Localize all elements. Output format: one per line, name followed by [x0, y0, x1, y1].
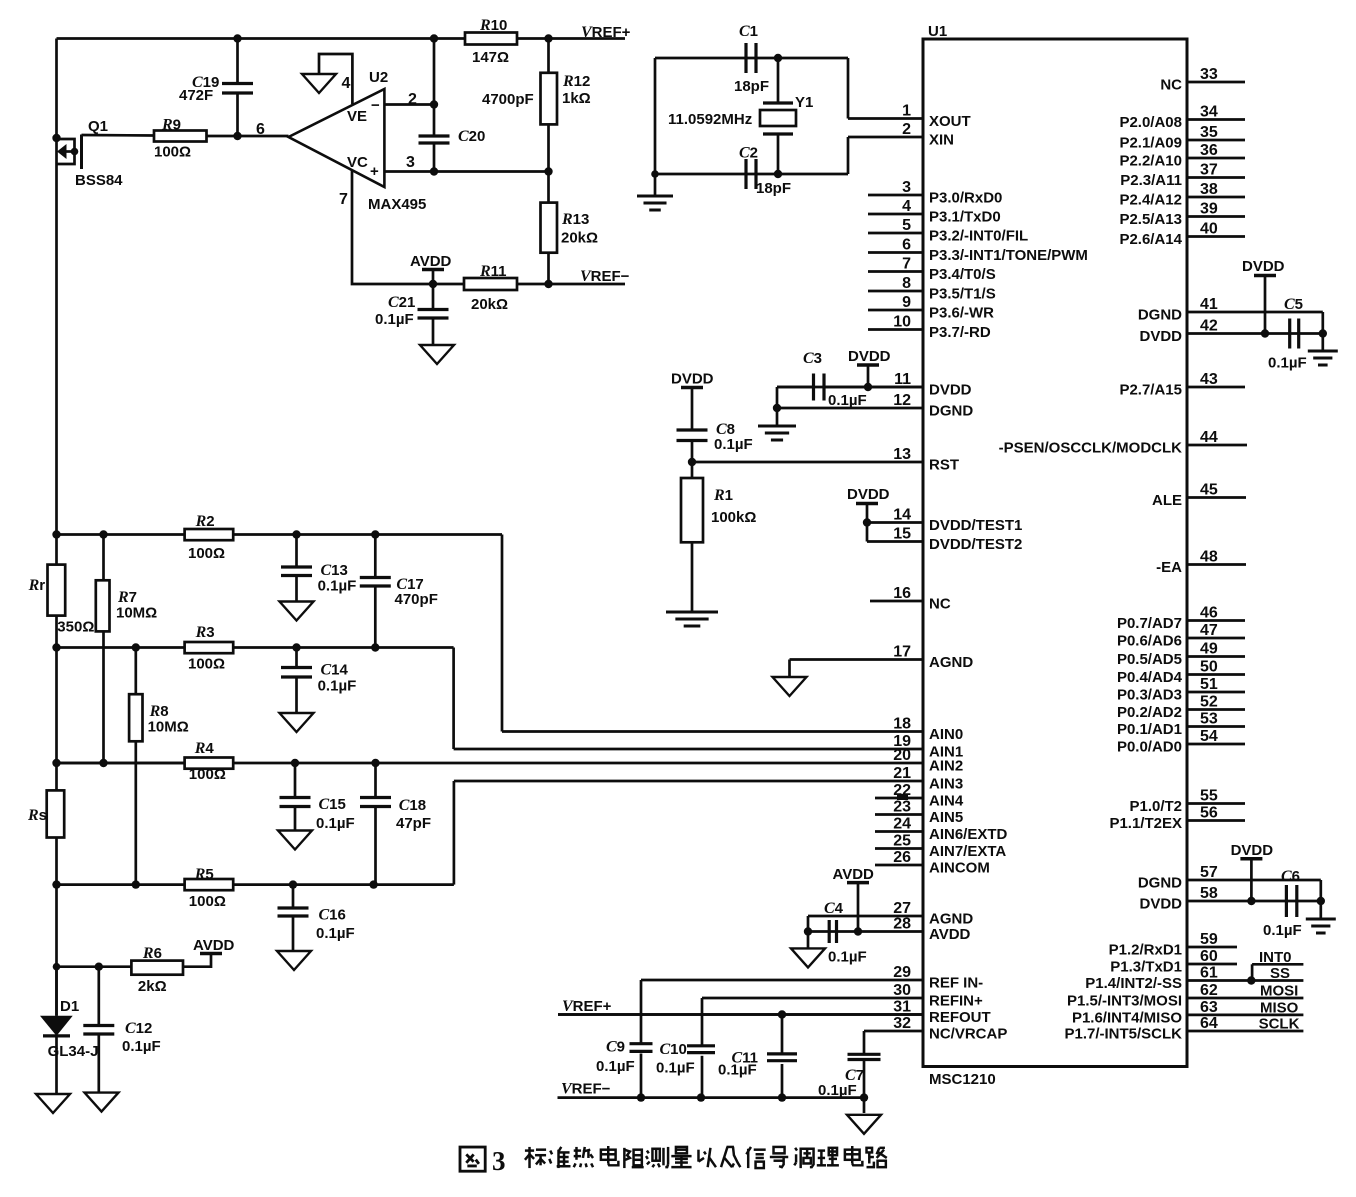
svg-text:P1.1/T2EX: P1.1/T2EX — [1109, 815, 1182, 832]
svg-text:62: 62 — [1200, 982, 1218, 999]
svg-text:C10: C10 — [660, 1041, 687, 1058]
svg-text:R1: R1 — [713, 487, 733, 504]
svg-text:38: 38 — [1200, 181, 1218, 198]
svg-text:36: 36 — [1200, 142, 1218, 159]
svg-text:NC: NC — [1160, 77, 1182, 94]
svg-text:−: − — [371, 97, 380, 114]
svg-text:20kΩ: 20kΩ — [471, 296, 508, 313]
svg-text:ALE: ALE — [1152, 492, 1182, 509]
svg-text:18: 18 — [893, 716, 911, 733]
svg-text:470pF: 470pF — [395, 591, 438, 608]
svg-text:DVDD/TEST2: DVDD/TEST2 — [929, 536, 1022, 553]
svg-text:P1.5/-INT3/MOSI: P1.5/-INT3/MOSI — [1067, 993, 1182, 1010]
svg-text:C20: C20 — [458, 128, 485, 145]
svg-text:GL34-J: GL34-J — [48, 1043, 99, 1060]
svg-text:100Ω: 100Ω — [188, 656, 225, 673]
svg-text:4: 4 — [902, 198, 911, 215]
svg-text:7: 7 — [902, 256, 911, 273]
svg-text:VREF+: VREF+ — [562, 998, 612, 1015]
svg-text:40: 40 — [1200, 221, 1218, 238]
svg-text:61: 61 — [1200, 965, 1218, 982]
svg-text:R4: R4 — [194, 740, 215, 757]
svg-text:R9: R9 — [161, 117, 181, 134]
svg-text:U1: U1 — [928, 23, 947, 40]
svg-text:R13: R13 — [561, 211, 589, 228]
svg-text:28: 28 — [893, 916, 911, 933]
svg-text:MOSI: MOSI — [1260, 983, 1298, 1000]
svg-text:P1.0/T2: P1.0/T2 — [1129, 798, 1182, 815]
svg-text:+: + — [370, 163, 379, 180]
svg-text:37: 37 — [1200, 162, 1218, 179]
svg-text:48: 48 — [1200, 549, 1218, 566]
svg-text:P0.3/AD3: P0.3/AD3 — [1117, 687, 1182, 704]
svg-text:15: 15 — [893, 526, 911, 543]
svg-text:2: 2 — [902, 121, 911, 138]
svg-text:VREF−: VREF− — [580, 268, 630, 285]
svg-text:10: 10 — [893, 314, 911, 331]
svg-text:DGND: DGND — [929, 403, 973, 420]
svg-text:R8: R8 — [149, 703, 169, 720]
svg-text:1: 1 — [902, 103, 911, 120]
svg-text:45: 45 — [1200, 482, 1218, 499]
svg-text:41: 41 — [1200, 296, 1218, 313]
svg-text:NC/VRCAP: NC/VRCAP — [929, 1026, 1007, 1043]
svg-text:9: 9 — [902, 294, 911, 311]
svg-text:26: 26 — [893, 849, 911, 866]
svg-text:P2.1/A09: P2.1/A09 — [1119, 135, 1182, 152]
svg-text:42: 42 — [1200, 318, 1218, 335]
svg-text:1kΩ: 1kΩ — [562, 90, 591, 107]
svg-text:DVDD: DVDD — [929, 382, 972, 399]
svg-text:Rr: Rr — [28, 577, 46, 594]
svg-text:C6: C6 — [1281, 868, 1300, 885]
svg-text:7: 7 — [339, 191, 348, 208]
svg-text:C15: C15 — [319, 796, 346, 813]
svg-text:11.0592MHz: 11.0592MHz — [668, 111, 752, 128]
svg-text:51: 51 — [1200, 676, 1218, 693]
svg-text:C2: C2 — [739, 145, 758, 162]
svg-text:P0.1/AD1: P0.1/AD1 — [1117, 721, 1182, 738]
svg-text:2kΩ: 2kΩ — [138, 978, 167, 995]
svg-text:AVDD: AVDD — [833, 866, 875, 883]
svg-text:AVDD: AVDD — [929, 926, 971, 943]
svg-text:AVDD: AVDD — [410, 253, 452, 270]
svg-text:R6: R6 — [142, 945, 162, 962]
svg-text:XOUT: XOUT — [929, 113, 971, 130]
svg-text:R12: R12 — [562, 73, 590, 90]
svg-text:100Ω: 100Ω — [154, 144, 191, 161]
svg-text:VC: VC — [347, 154, 368, 171]
svg-text:SCLK: SCLK — [1259, 1016, 1300, 1033]
svg-text:C14: C14 — [321, 662, 349, 679]
svg-text:43: 43 — [1200, 371, 1218, 388]
svg-text:0.1µF: 0.1µF — [316, 925, 355, 942]
svg-text:472F: 472F — [179, 87, 213, 104]
svg-text:100Ω: 100Ω — [189, 766, 226, 783]
svg-text:24: 24 — [893, 816, 911, 833]
svg-text:P0.6/AD6: P0.6/AD6 — [1117, 633, 1182, 650]
svg-text:20kΩ: 20kΩ — [561, 230, 598, 247]
svg-text:C5: C5 — [1284, 296, 1303, 313]
svg-text:AVDD: AVDD — [193, 937, 235, 954]
svg-text:60: 60 — [1200, 948, 1218, 965]
svg-text:P1.4/INT2/-SS: P1.4/INT2/-SS — [1085, 975, 1182, 992]
svg-text:-EA: -EA — [1156, 559, 1182, 576]
svg-text:P2.6/A14: P2.6/A14 — [1119, 231, 1182, 248]
svg-text:P2.7/A15: P2.7/A15 — [1119, 382, 1182, 399]
svg-text:REF IN-: REF IN- — [929, 975, 983, 992]
svg-text:32: 32 — [893, 1015, 911, 1032]
svg-text:18pF: 18pF — [734, 78, 769, 95]
svg-text:49: 49 — [1200, 641, 1218, 658]
svg-text:AIN7/EXTA: AIN7/EXTA — [929, 843, 1006, 860]
svg-text:MISO: MISO — [1260, 1000, 1299, 1017]
svg-text:18pF: 18pF — [756, 180, 791, 197]
svg-text:0.1µF: 0.1µF — [656, 1060, 695, 1077]
svg-text:100kΩ: 100kΩ — [711, 509, 756, 526]
svg-text:P2.2/A10: P2.2/A10 — [1119, 153, 1182, 170]
svg-text:P1.2/RxD1: P1.2/RxD1 — [1109, 942, 1182, 959]
svg-text:0.1µF: 0.1µF — [828, 392, 867, 409]
svg-text:46: 46 — [1200, 605, 1218, 622]
svg-text:52: 52 — [1200, 694, 1218, 711]
svg-text:U2: U2 — [369, 69, 388, 86]
svg-text:0.1µF: 0.1µF — [316, 815, 355, 832]
svg-text:8: 8 — [902, 275, 911, 292]
svg-text:P1.7/-INT5/SCLK: P1.7/-INT5/SCLK — [1064, 1026, 1182, 1043]
svg-text:P0.0/AD0: P0.0/AD0 — [1117, 739, 1182, 756]
svg-text:P2.3/A11: P2.3/A11 — [1120, 172, 1182, 189]
svg-text:R7: R7 — [117, 589, 137, 606]
svg-text:C1: C1 — [739, 23, 758, 40]
svg-text:0.1µF: 0.1µF — [596, 1058, 635, 1075]
svg-text:DVDD: DVDD — [847, 486, 890, 503]
svg-text:33: 33 — [1200, 66, 1218, 83]
svg-text:XIN: XIN — [929, 132, 954, 149]
svg-text:C13: C13 — [321, 562, 348, 579]
svg-text:Rs: Rs — [27, 807, 47, 824]
svg-text:56: 56 — [1200, 805, 1218, 822]
svg-text:P0.7/AD7: P0.7/AD7 — [1117, 615, 1182, 632]
svg-text:P3.4/T0/S: P3.4/T0/S — [929, 266, 996, 283]
svg-text:39: 39 — [1200, 201, 1218, 218]
svg-text:63: 63 — [1200, 999, 1218, 1016]
svg-text:AIN4: AIN4 — [929, 793, 964, 810]
svg-text:0.1µF: 0.1µF — [1263, 922, 1302, 939]
svg-text:P2.5/A13: P2.5/A13 — [1119, 211, 1182, 228]
svg-text:2: 2 — [408, 91, 417, 108]
svg-text:VE: VE — [347, 108, 367, 125]
svg-text:P1.6/INT4/MISO: P1.6/INT4/MISO — [1072, 1009, 1182, 1026]
svg-text:DVDD/TEST1: DVDD/TEST1 — [929, 517, 1022, 534]
svg-text:17: 17 — [893, 644, 911, 661]
svg-text:RST: RST — [929, 457, 959, 474]
svg-text:P3.7/-RD: P3.7/-RD — [929, 324, 991, 341]
svg-text:0.1µF: 0.1µF — [318, 678, 357, 695]
svg-text:21: 21 — [893, 765, 911, 782]
svg-text:0.1µF: 0.1µF — [828, 949, 867, 966]
svg-text:59: 59 — [1200, 931, 1218, 948]
svg-text:C12: C12 — [125, 1020, 152, 1037]
svg-text:DVDD: DVDD — [1139, 328, 1182, 345]
svg-text:R5: R5 — [194, 866, 214, 883]
svg-text:DGND: DGND — [1138, 307, 1182, 324]
svg-text:AGND: AGND — [929, 911, 973, 928]
svg-text:P2.4/A12: P2.4/A12 — [1119, 192, 1182, 209]
svg-text:147Ω: 147Ω — [472, 49, 509, 66]
svg-text:AIN5: AIN5 — [929, 809, 963, 826]
svg-text:AIN2: AIN2 — [929, 758, 963, 775]
svg-text:R3: R3 — [195, 624, 215, 641]
svg-text:54: 54 — [1200, 728, 1218, 745]
svg-text:47pF: 47pF — [396, 815, 431, 832]
svg-text:3: 3 — [406, 154, 415, 171]
svg-text:55: 55 — [1200, 788, 1218, 805]
svg-text:0.1µF: 0.1µF — [1268, 355, 1307, 372]
svg-text:16: 16 — [893, 585, 911, 602]
svg-text:3: 3 — [902, 179, 911, 196]
svg-text:100Ω: 100Ω — [189, 893, 226, 910]
svg-text:SS: SS — [1270, 965, 1290, 982]
svg-text:6: 6 — [256, 121, 265, 138]
svg-text:C18: C18 — [399, 797, 426, 814]
svg-text:C16: C16 — [319, 907, 346, 924]
svg-text:23: 23 — [893, 799, 911, 816]
svg-text:C3: C3 — [803, 350, 822, 367]
svg-text:0.1µF: 0.1µF — [318, 578, 357, 595]
svg-text:4: 4 — [342, 75, 351, 92]
svg-text:0.1µF: 0.1µF — [122, 1038, 161, 1055]
svg-text:REFOUT: REFOUT — [929, 1009, 991, 1026]
svg-text:57: 57 — [1200, 864, 1218, 881]
svg-text:31: 31 — [893, 999, 911, 1016]
svg-text:35: 35 — [1200, 124, 1218, 141]
svg-text:P3.2/-INT0/FIL: P3.2/-INT0/FIL — [929, 228, 1028, 245]
svg-text:C4: C4 — [824, 900, 844, 917]
svg-text:AIN6/EXTD: AIN6/EXTD — [929, 826, 1008, 843]
svg-text:58: 58 — [1200, 885, 1218, 902]
svg-text:4700pF: 4700pF — [482, 91, 534, 108]
svg-text:R10: R10 — [479, 17, 507, 34]
svg-text:27: 27 — [893, 900, 911, 917]
svg-text:-PSEN/OSCCLK/MODCLK: -PSEN/OSCCLK/MODCLK — [999, 440, 1183, 457]
svg-text:MSC1210: MSC1210 — [929, 1071, 996, 1088]
svg-text:5: 5 — [902, 217, 911, 234]
svg-text:DVDD: DVDD — [1242, 258, 1285, 275]
svg-text:C9: C9 — [606, 1039, 625, 1056]
svg-text:DVDD: DVDD — [848, 348, 891, 365]
svg-text:34: 34 — [1200, 104, 1218, 121]
svg-text:P0.5/AD5: P0.5/AD5 — [1117, 651, 1182, 668]
svg-text:44: 44 — [1200, 429, 1218, 446]
svg-text:Y1: Y1 — [795, 94, 813, 111]
svg-text:3: 3 — [492, 1146, 506, 1176]
svg-text:MAX495: MAX495 — [368, 196, 426, 213]
svg-text:25: 25 — [893, 833, 911, 850]
svg-text:R11: R11 — [479, 263, 507, 280]
svg-text:P1.3/TxD1: P1.3/TxD1 — [1110, 959, 1182, 976]
svg-text:P0.2/AD2: P0.2/AD2 — [1117, 704, 1182, 721]
svg-text:0.1µF: 0.1µF — [818, 1082, 857, 1099]
svg-text:6: 6 — [902, 237, 911, 254]
svg-text:P3.5/T1/S: P3.5/T1/S — [929, 286, 996, 303]
svg-text:AINCOM: AINCOM — [929, 860, 990, 877]
svg-text:30: 30 — [893, 982, 911, 999]
svg-text:350Ω: 350Ω — [57, 619, 94, 636]
svg-text:47: 47 — [1200, 622, 1218, 639]
svg-text:100Ω: 100Ω — [188, 545, 225, 562]
svg-text:C21: C21 — [388, 294, 415, 311]
svg-text:13: 13 — [893, 446, 911, 463]
svg-text:AIN0: AIN0 — [929, 726, 963, 743]
svg-text:64: 64 — [1200, 1015, 1218, 1032]
svg-text:DGND: DGND — [1138, 875, 1182, 892]
svg-text:0.1µF: 0.1µF — [375, 311, 414, 328]
svg-text:P3.3/-INT1/TONE/PWM: P3.3/-INT1/TONE/PWM — [929, 247, 1088, 264]
svg-text:Q1: Q1 — [88, 118, 108, 135]
svg-text:BSS84: BSS84 — [75, 172, 123, 189]
svg-text:P0.4/AD4: P0.4/AD4 — [1117, 669, 1183, 686]
svg-text:P3.6/-WR: P3.6/-WR — [929, 305, 994, 322]
svg-text:P3.1/TxD0: P3.1/TxD0 — [929, 209, 1001, 226]
svg-text:AIN3: AIN3 — [929, 776, 963, 793]
svg-text:P3.0/RxD0: P3.0/RxD0 — [929, 190, 1002, 207]
svg-text:VREF+: VREF+ — [581, 24, 631, 41]
svg-text:DVDD: DVDD — [1139, 896, 1182, 913]
svg-text:D1: D1 — [60, 998, 79, 1015]
svg-text:P2.0/A08: P2.0/A08 — [1119, 114, 1182, 131]
svg-text:DVDD: DVDD — [1231, 842, 1274, 859]
svg-text:11: 11 — [894, 371, 911, 388]
svg-text:10MΩ: 10MΩ — [148, 719, 189, 736]
svg-text:AGND: AGND — [929, 654, 973, 671]
svg-text:0.1µF: 0.1µF — [718, 1062, 757, 1079]
svg-text:14: 14 — [893, 507, 911, 524]
svg-text:20: 20 — [893, 747, 911, 764]
svg-text:R2: R2 — [195, 513, 215, 530]
svg-text:0.1µF: 0.1µF — [714, 436, 753, 453]
svg-text:DVDD: DVDD — [671, 371, 714, 388]
svg-text:12: 12 — [893, 392, 911, 409]
svg-text:53: 53 — [1200, 711, 1218, 728]
svg-text:29: 29 — [893, 964, 911, 981]
svg-text:10MΩ: 10MΩ — [116, 605, 157, 622]
svg-text:VREF−: VREF− — [561, 1081, 611, 1098]
svg-text:NC: NC — [929, 596, 951, 613]
svg-text:REFIN+: REFIN+ — [929, 993, 983, 1010]
svg-text:50: 50 — [1200, 659, 1218, 676]
